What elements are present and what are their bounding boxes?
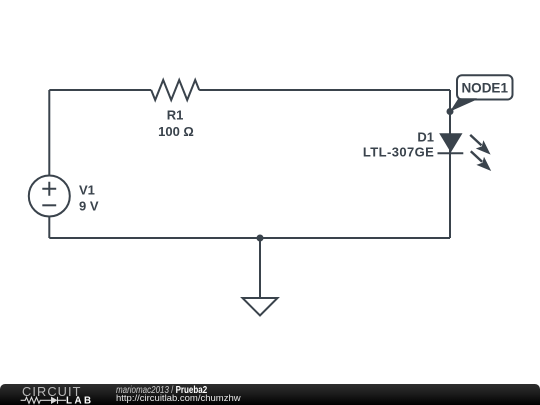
svg-text:R1: R1 <box>167 107 184 122</box>
svg-text:NODE1: NODE1 <box>461 81 508 96</box>
svg-text:D1: D1 <box>417 130 434 145</box>
svg-text:100 Ω: 100 Ω <box>158 124 194 139</box>
svg-text:LTL-307GE: LTL-307GE <box>363 145 434 160</box>
svg-text:V1: V1 <box>79 183 95 198</box>
svg-text:LAB: LAB <box>66 395 94 405</box>
svg-text:9 V: 9 V <box>79 199 99 214</box>
